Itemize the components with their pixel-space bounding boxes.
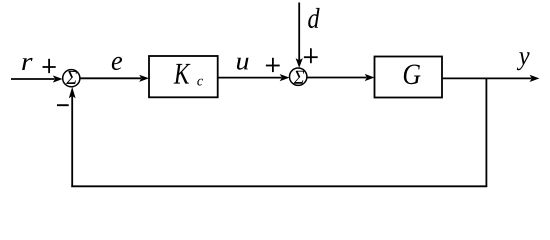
node label r: [22, 58, 32, 70]
wire: disturbance d line into S2: [296, 3, 303, 68]
block Kc (controller): [149, 56, 218, 97]
node label e: [112, 57, 122, 70]
plus sign at summer S1 reference input: [43, 59, 56, 73]
node label u: [237, 58, 249, 70]
node label y: [517, 52, 530, 70]
summing junction S1: [63, 70, 80, 87]
wire: feedback riser into S1: [69, 87, 76, 187]
wire: u line from Kc to summer S2: [218, 74, 290, 81]
wire: input r line into summer S1: [11, 75, 63, 82]
block G (plant): [375, 57, 443, 98]
wire: feedback bottom line: [71, 185, 487, 187]
node label d: [308, 8, 319, 28]
wire: feedback branch down from output node: [485, 78, 487, 187]
wire: S2 to G block: [307, 74, 375, 81]
plus sign at summer S2 left input: [266, 58, 280, 72]
minus sign at summer S1 feedback input: [57, 104, 69, 106]
wire: error e line from S1 to Kc block: [80, 75, 149, 82]
summing junction S2: [290, 68, 307, 85]
plus sign at summer S2 disturbance input: [304, 48, 318, 63]
wire: output y line: [442, 75, 539, 82]
